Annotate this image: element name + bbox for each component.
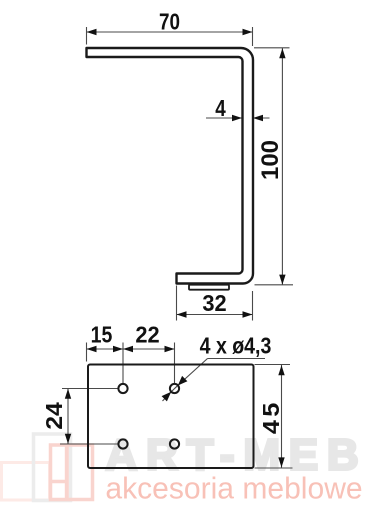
svg-text:70: 70 xyxy=(159,10,180,35)
svg-text:22: 22 xyxy=(135,322,159,348)
svg-text:15: 15 xyxy=(91,322,113,348)
svg-text:24: 24 xyxy=(42,401,68,429)
svg-text:4: 4 xyxy=(215,96,226,121)
svg-text:32: 32 xyxy=(202,290,226,316)
svg-text:4 x ø4,3: 4 x ø4,3 xyxy=(200,333,272,359)
svg-text:100: 100 xyxy=(257,140,284,180)
svg-text:akcesoria meblowe: akcesoria meblowe xyxy=(105,471,362,505)
svg-text:45: 45 xyxy=(259,399,285,434)
